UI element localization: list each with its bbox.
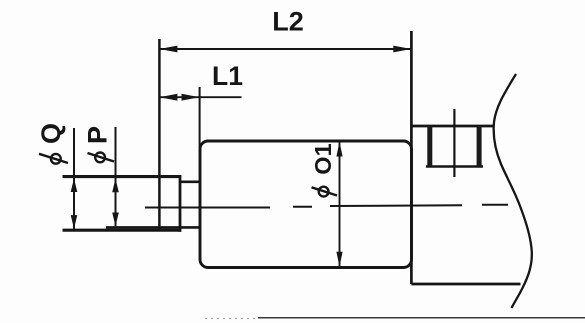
rod stub (diameter Q) bottom edge with extension — [63, 229, 182, 232]
diameter P dimension line with arrowheads — [112, 127, 119, 226]
rod stub left face / L2 and L1 left extension line — [158, 39, 161, 232]
diameter Q label — [36, 123, 66, 144]
tapped hole bottom — [426, 165, 483, 168]
diameter P phi symbol — [88, 153, 115, 163]
dimension L1 label — [212, 61, 243, 91]
diameter O1 label — [310, 143, 336, 174]
tapped hole right thread wall — [477, 126, 482, 168]
rod stub (diameter Q) top edge with extension — [63, 175, 181, 178]
right body top edge — [411, 125, 494, 128]
right body bottom edge — [411, 283, 520, 286]
dimension L1 right extension line — [199, 87, 201, 148]
diameter P label — [83, 126, 113, 144]
dimension L2 label — [272, 7, 304, 37]
right body left edge / L2 right extension line — [410, 31, 413, 284]
main cylinder body (diameter O1) rounded outline — [200, 141, 412, 268]
svg-text:P: P — [83, 126, 113, 144]
tapped hole left thread wall — [427, 126, 432, 168]
horizontal centerline dash 1 — [145, 207, 270, 209]
diameter Q phi symbol — [39, 154, 68, 164]
rod neck (diameter P) bottom edge with extension — [106, 226, 200, 229]
svg-text:L2: L2 — [272, 7, 304, 37]
break curve (S-shaped broken-off edge) — [494, 74, 532, 308]
svg-text:L1: L1 — [212, 61, 243, 91]
dimension L1 line with arrowheads and tail — [159, 94, 241, 101]
tapped hole vertical centerline — [453, 109, 455, 177]
horizontal centerline dash 3 — [330, 204, 462, 207]
horizontal centerline dash 2 — [293, 206, 312, 208]
bottom table rule faint dotted part — [205, 318, 258, 320]
svg-text:Q: Q — [36, 123, 66, 144]
horizontal centerline dash 4 — [482, 204, 508, 206]
diameter O1 dimension line with arrowheads — [336, 142, 342, 267]
bottom table rule solid part — [258, 317, 585, 319]
diameter Q dimension line with arrowheads — [71, 128, 78, 229]
dimension L2 line with arrowheads — [159, 46, 411, 53]
rod stub right face — [179, 175, 182, 232]
svg-text:O1: O1 — [310, 143, 336, 174]
diameter O1 phi symbol — [312, 187, 338, 197]
rod neck (diameter P) top edge — [179, 180, 200, 183]
